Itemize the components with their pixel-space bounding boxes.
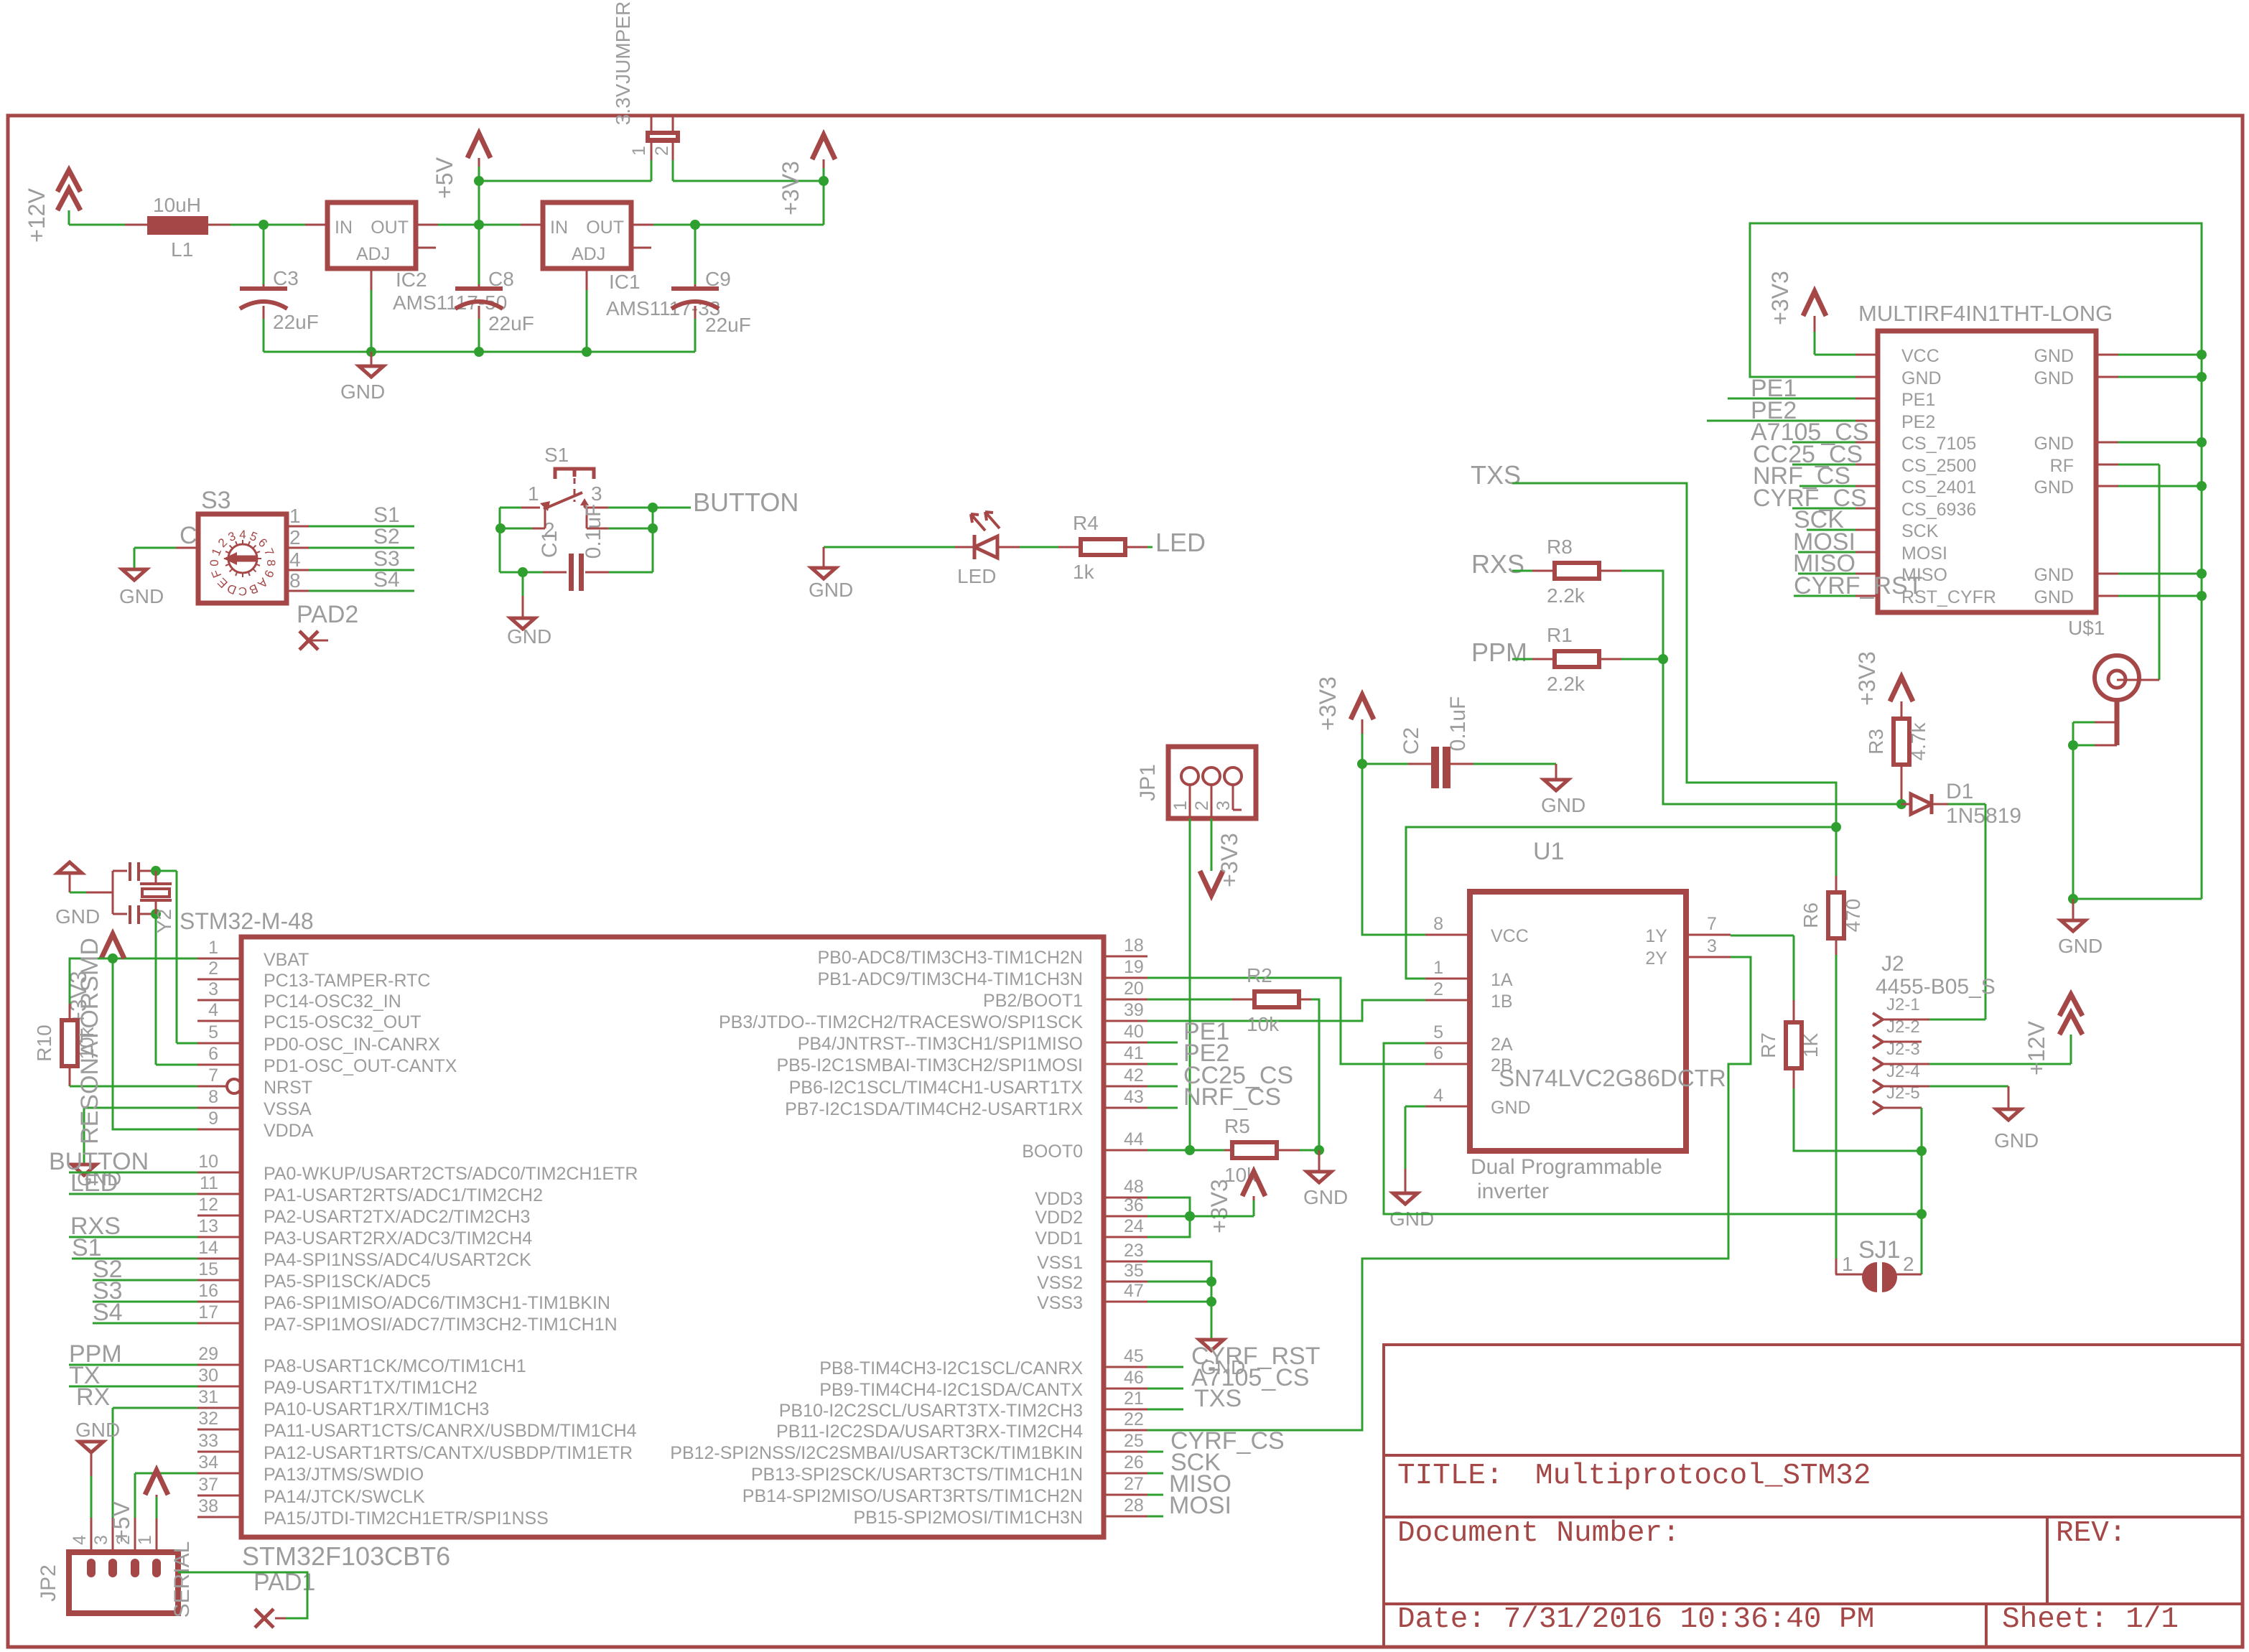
svg-text:29: 29 [198, 1344, 218, 1364]
svg-text:PB14-SPI2MISO/USART3RTS/TIM1CH: PB14-SPI2MISO/USART3RTS/TIM1CH2N [742, 1486, 1083, 1506]
svg-text:+5V: +5V [432, 157, 457, 198]
svg-text:RESONATORSMD: RESONATORSMD [76, 938, 103, 1144]
svg-text:CS_2500: CS_2500 [1901, 456, 1976, 476]
svg-text:IC2: IC2 [396, 269, 427, 291]
svg-text:GND: GND [2034, 434, 2074, 454]
svg-text:6: 6 [208, 1044, 218, 1064]
svg-text:PB10-I2C2SCL/USART3TX-TIM2CH3: PB10-I2C2SCL/USART3TX-TIM2CH3 [779, 1401, 1083, 1421]
svg-text:3: 3 [91, 1535, 111, 1545]
svg-text:10uH: 10uH [153, 194, 201, 216]
svg-text:C8: C8 [488, 268, 514, 290]
svg-text:CS_7105: CS_7105 [1901, 434, 1976, 454]
svg-text:MULTIRF4IN1THT-LONG: MULTIRF4IN1THT-LONG [1858, 301, 2113, 326]
svg-text:PB6-I2C1SCL/TIM4CH1-USART1TX: PB6-I2C1SCL/TIM4CH1-USART1TX [789, 1078, 1084, 1098]
svg-text:22: 22 [1124, 1409, 1144, 1429]
svg-text:R5: R5 [1224, 1115, 1250, 1137]
svg-text:4: 4 [1433, 1086, 1443, 1106]
svg-text:1Y: 1Y [1645, 926, 1667, 946]
svg-text:Date: 7/31/2016 10:36:40 PM: Date: 7/31/2016 10:36:40 PM [1397, 1603, 1874, 1636]
svg-text:R6: R6 [1799, 902, 1822, 928]
svg-text:4: 4 [208, 1000, 218, 1020]
svg-text:U1: U1 [1533, 838, 1564, 865]
svg-text:TXS: TXS [1194, 1385, 1242, 1412]
svg-text:SN74LVC2G86DCTR: SN74LVC2G86DCTR [1499, 1065, 1726, 1091]
svg-text:C2: C2 [1400, 727, 1423, 755]
svg-text:16: 16 [198, 1281, 218, 1301]
svg-text:PB8-TIM4CH3-I2C1SCL/CANRX: PB8-TIM4CH3-I2C1SCL/CANRX [819, 1358, 1083, 1378]
svg-text:4: 4 [70, 1535, 90, 1545]
svg-text:43: 43 [1124, 1087, 1144, 1107]
svg-text:+3V3: +3V3 [1206, 1179, 1232, 1233]
svg-text:GND: GND [2034, 368, 2074, 388]
svg-text:SERIAL: SERIAL [170, 1541, 194, 1618]
svg-text:C1: C1 [538, 531, 562, 558]
svg-text:5: 5 [1433, 1022, 1443, 1042]
svg-text:4: 4 [289, 549, 301, 571]
svg-text:2.2k: 2.2k [1547, 673, 1586, 695]
svg-text:2: 2 [113, 1535, 134, 1545]
svg-text:PA7-SPI1MOSI/ADC7/TIM3CH2-TIM1: PA7-SPI1MOSI/ADC7/TIM3CH2-TIM1CH1N [264, 1315, 618, 1335]
svg-text:GND: GND [1541, 794, 1586, 816]
svg-text:IN: IN [335, 218, 353, 238]
svg-text:40: 40 [1124, 1022, 1144, 1042]
svg-text:VDD2: VDD2 [1035, 1208, 1083, 1228]
svg-text:1A: 1A [1491, 970, 1513, 990]
svg-text:PC14-OSC32_IN: PC14-OSC32_IN [264, 991, 401, 1012]
svg-text:1: 1 [629, 146, 649, 156]
svg-text:STM32F103CBT6: STM32F103CBT6 [242, 1541, 450, 1571]
svg-text:ADJ: ADJ [572, 244, 605, 264]
svg-text:7: 7 [208, 1065, 218, 1086]
svg-text:CS_6936: CS_6936 [1901, 500, 1976, 520]
svg-text:GND: GND [75, 1419, 120, 1441]
svg-text:28: 28 [1124, 1495, 1144, 1516]
svg-text:22uF: 22uF [273, 311, 319, 333]
svg-text:7: 7 [1707, 914, 1717, 934]
svg-text:PA0-WKUP/USART2CTS/ADC0/TIM2CH: PA0-WKUP/USART2CTS/ADC0/TIM2CH1ETR [264, 1164, 638, 1184]
svg-text:S4: S4 [373, 568, 400, 592]
svg-text:R2: R2 [1247, 964, 1272, 986]
svg-text:3: 3 [1707, 936, 1717, 956]
svg-text:GND: GND [1901, 368, 1942, 388]
svg-text:3.3VJUMPER: 3.3VJUMPER [612, 1, 634, 126]
svg-text:0.1uF: 0.1uF [582, 504, 605, 559]
svg-text:PC15-OSC32_OUT: PC15-OSC32_OUT [264, 1012, 422, 1032]
svg-text:PE1: PE1 [1901, 390, 1935, 410]
svg-text:R8: R8 [1547, 536, 1573, 558]
svg-text:TXS: TXS [1471, 460, 1521, 490]
svg-text:PB13-SPI2SCK/USART3CTS/TIM1CH1: PB13-SPI2SCK/USART3CTS/TIM1CH1N [751, 1465, 1083, 1485]
svg-text:+12V: +12V [2024, 1021, 2049, 1075]
svg-text:2: 2 [1192, 801, 1212, 811]
svg-text:IN: IN [550, 218, 568, 238]
svg-text:4: 4 [239, 528, 246, 541]
svg-text:12: 12 [198, 1195, 218, 1215]
svg-text:4.7k: 4.7k [1907, 722, 1929, 761]
svg-text:J2: J2 [1881, 952, 1904, 976]
svg-text:19: 19 [1124, 957, 1144, 977]
svg-text:S4: S4 [93, 1299, 123, 1326]
svg-text:21: 21 [1124, 1389, 1144, 1409]
svg-text:2: 2 [208, 958, 218, 979]
svg-text:3: 3 [591, 482, 602, 505]
svg-text:VDDA: VDDA [264, 1121, 314, 1141]
svg-text:25: 25 [1124, 1431, 1144, 1451]
svg-text:NRF_CS: NRF_CS [1183, 1083, 1281, 1111]
svg-text:PB2/BOOT1: PB2/BOOT1 [983, 991, 1083, 1011]
svg-text:+12V: +12V [24, 188, 50, 243]
svg-text:2: 2 [1903, 1253, 1914, 1275]
svg-text:1N5819: 1N5819 [1946, 804, 2021, 828]
svg-text:1: 1 [1842, 1253, 1853, 1275]
svg-text:R7: R7 [1757, 1032, 1779, 1058]
svg-text:6: 6 [1433, 1043, 1443, 1063]
svg-text:+3V3: +3V3 [1315, 676, 1341, 731]
svg-text:1: 1 [528, 482, 539, 505]
svg-text:39: 39 [1124, 1000, 1144, 1020]
svg-text:23: 23 [1124, 1241, 1144, 1261]
svg-text:VBAT: VBAT [264, 950, 309, 970]
svg-text:1B: 1B [1491, 991, 1513, 1012]
svg-text:37: 37 [198, 1475, 218, 1495]
svg-text:+3V3: +3V3 [1854, 651, 1880, 706]
svg-text:S3: S3 [201, 487, 231, 514]
svg-text:33: 33 [198, 1431, 218, 1451]
svg-text:47: 47 [1124, 1281, 1144, 1301]
svg-text:10k: 10k [1247, 1013, 1280, 1035]
svg-text:PC13-TAMPER-RTC: PC13-TAMPER-RTC [264, 971, 430, 991]
svg-text:OUT: OUT [586, 218, 624, 238]
svg-text:8: 8 [208, 1087, 218, 1107]
svg-text:PA1-USART2RTS/ADC1/TIM2CH2: PA1-USART2RTS/ADC1/TIM2CH2 [264, 1185, 543, 1205]
svg-text:C3: C3 [273, 267, 299, 289]
svg-text:0: 0 [208, 559, 221, 566]
svg-text:PB7-I2C1SDA/TIM4CH2-USART1RX: PB7-I2C1SDA/TIM4CH2-USART1RX [785, 1099, 1083, 1119]
svg-text:PB9-TIM4CH4-I2C1SDA/CANTX: PB9-TIM4CH4-I2C1SDA/CANTX [819, 1380, 1083, 1400]
svg-text:1: 1 [289, 505, 301, 527]
svg-text:VDD3: VDD3 [1035, 1189, 1083, 1209]
svg-text:PD1-OSC_OUT-CANTX: PD1-OSC_OUT-CANTX [264, 1056, 457, 1076]
svg-text:RXS: RXS [1471, 549, 1524, 579]
svg-text:RX: RX [76, 1383, 110, 1411]
svg-text:S1: S1 [373, 503, 400, 527]
svg-text:PD0-OSC_IN-CANRX: PD0-OSC_IN-CANRX [264, 1035, 440, 1055]
svg-text:GND: GND [1303, 1186, 1348, 1208]
svg-text:MOSI: MOSI [1901, 543, 1947, 564]
svg-text:RF: RF [2050, 456, 2074, 476]
svg-text:D1: D1 [1946, 780, 1973, 803]
svg-text:PA5-SPI1SCK/ADC5: PA5-SPI1SCK/ADC5 [264, 1271, 431, 1292]
svg-text:18: 18 [1124, 935, 1144, 956]
svg-text:8: 8 [1433, 914, 1443, 934]
svg-text:SCK: SCK [1901, 521, 1939, 541]
svg-text:+3V3: +3V3 [1767, 271, 1793, 325]
svg-text:BOOT0: BOOT0 [1022, 1142, 1083, 1162]
svg-text:REV:: REV: [2056, 1517, 2126, 1550]
svg-text:2B: 2B [1491, 1055, 1513, 1075]
svg-text:2.2k: 2.2k [1547, 584, 1586, 607]
svg-text:13: 13 [198, 1216, 218, 1236]
svg-text:36: 36 [1124, 1195, 1144, 1215]
svg-text:GND: GND [119, 585, 164, 607]
svg-text:PA14/JTCK/SWCLK: PA14/JTCK/SWCLK [264, 1487, 425, 1507]
svg-text:VCC: VCC [1901, 346, 1940, 366]
svg-text:PA4-SPI1NSS/ADC4/USART2CK: PA4-SPI1NSS/ADC4/USART2CK [264, 1250, 531, 1270]
svg-text:PA13/JTMS/SWDIO: PA13/JTMS/SWDIO [264, 1465, 424, 1485]
svg-text:GND: GND [1994, 1129, 2039, 1152]
svg-text:CS_2401: CS_2401 [1901, 477, 1976, 498]
svg-text:11: 11 [200, 1173, 218, 1193]
svg-text:R3: R3 [1865, 729, 1887, 755]
svg-text:PA11-USART1CTS/CANRX/USBDM/TIM: PA11-USART1CTS/CANRX/USBDM/TIM1CH4 [264, 1421, 637, 1441]
svg-text:5: 5 [208, 1022, 218, 1042]
svg-text:PA6-SPI1MISO/ADC6/TIM3CH1-TIM1: PA6-SPI1MISO/ADC6/TIM3CH1-TIM1BKIN [264, 1293, 610, 1313]
svg-text:C: C [238, 584, 247, 598]
svg-text:PA8-USART1CK/MCO/TIM1CH1: PA8-USART1CK/MCO/TIM1CH1 [264, 1356, 526, 1376]
svg-text:2Y: 2Y [1645, 948, 1667, 969]
svg-text:45: 45 [1124, 1346, 1144, 1366]
svg-text:35: 35 [1124, 1261, 1144, 1281]
svg-text:22uF: 22uF [488, 312, 534, 335]
svg-text:PB1-ADC9/TIM3CH4-TIM1CH3N: PB1-ADC9/TIM3CH4-TIM1CH3N [817, 969, 1083, 989]
svg-text:S2: S2 [373, 525, 400, 549]
svg-text:OUT: OUT [371, 218, 409, 238]
svg-text:3: 3 [1214, 801, 1234, 811]
svg-text:Sheet: 1/1: Sheet: 1/1 [2002, 1603, 2179, 1636]
svg-text:GND: GND [340, 381, 385, 403]
svg-text:22uF: 22uF [705, 314, 751, 336]
svg-text:PB0-ADC8/TIM3CH3-TIM1CH2N: PB0-ADC8/TIM3CH3-TIM1CH2N [817, 948, 1083, 968]
svg-text:Dual Programmable: Dual Programmable [1471, 1155, 1662, 1179]
svg-text:0.1uF: 0.1uF [1446, 696, 1470, 752]
svg-text:GND: GND [507, 625, 551, 648]
svg-text:PA10-USART1RX/TIM1CH3: PA10-USART1RX/TIM1CH3 [264, 1399, 489, 1419]
svg-text:27: 27 [1124, 1474, 1144, 1494]
svg-text:U$1: U$1 [2068, 617, 2105, 639]
svg-text:8: 8 [264, 559, 278, 566]
svg-text:30: 30 [198, 1366, 218, 1386]
svg-text:LED: LED [70, 1170, 118, 1197]
svg-text:CYRF_RST: CYRF_RST [1794, 572, 1922, 599]
svg-text:ADJ: ADJ [356, 244, 390, 264]
svg-text:PB3/JTDO--TIM2CH2/TRACESWO/SPI: PB3/JTDO--TIM2CH2/TRACESWO/SPI1SCK [719, 1012, 1083, 1032]
svg-text:PB12-SPI2NSS/I2C2SMBAI/USART3C: PB12-SPI2NSS/I2C2SMBAI/USART3CK/TIM1BKIN [670, 1443, 1083, 1463]
svg-text:GND: GND [2034, 477, 2074, 498]
svg-text:41: 41 [1124, 1043, 1144, 1063]
svg-text:2A: 2A [1491, 1035, 1513, 1055]
svg-text:2: 2 [652, 146, 672, 156]
svg-text:NRST: NRST [264, 1078, 312, 1098]
svg-text:GND: GND [809, 579, 853, 601]
svg-text:32: 32 [198, 1409, 218, 1429]
svg-text:SJ1: SJ1 [1858, 1236, 1901, 1264]
svg-text:GND: GND [2034, 346, 2074, 366]
svg-text:8: 8 [289, 569, 301, 592]
svg-text:14: 14 [198, 1238, 218, 1258]
svg-text:PB11-I2C2SDA/USART3RX-TIM2CH4: PB11-I2C2SDA/USART3RX-TIM2CH4 [776, 1422, 1083, 1442]
svg-text:L1: L1 [171, 238, 193, 261]
svg-text:VSSA: VSSA [264, 1099, 312, 1119]
svg-text:PA3-USART2RX/ADC3/TIM2CH4: PA3-USART2RX/ADC3/TIM2CH4 [264, 1228, 532, 1249]
svg-text:1: 1 [208, 938, 218, 958]
svg-text:PE2: PE2 [1901, 412, 1935, 432]
svg-text:1: 1 [135, 1535, 155, 1545]
svg-text:S1: S1 [544, 444, 569, 466]
svg-text:MOSI: MOSI [1169, 1492, 1231, 1519]
svg-text:PPM: PPM [1471, 638, 1527, 667]
svg-text:VSS1: VSS1 [1037, 1253, 1083, 1273]
svg-text:GND: GND [2058, 935, 2103, 957]
svg-text:TITLE:: TITLE: [1397, 1460, 1504, 1493]
svg-text:LED: LED [957, 565, 996, 587]
svg-text:PA12-USART1RTS/CANTX/USBDP/TIM: PA12-USART1RTS/CANTX/USBDP/TIM1ETR [264, 1443, 633, 1463]
svg-text:42: 42 [1124, 1065, 1144, 1086]
svg-text:IC1: IC1 [609, 271, 641, 293]
svg-text:2: 2 [289, 526, 301, 549]
svg-text:VCC: VCC [1491, 926, 1529, 946]
svg-text:1k: 1k [1073, 561, 1095, 583]
svg-text:R4: R4 [1073, 512, 1099, 534]
svg-text:GND: GND [2034, 587, 2074, 607]
svg-text:BUTTON: BUTTON [693, 487, 798, 517]
svg-text:GND: GND [2034, 565, 2074, 585]
svg-text:48: 48 [1124, 1177, 1144, 1197]
svg-text:JP1: JP1 [1136, 764, 1160, 801]
svg-text:J2-1: J2-1 [1886, 995, 1920, 1014]
svg-text:+3V3: +3V3 [1216, 833, 1242, 887]
svg-text:26: 26 [1124, 1452, 1144, 1473]
svg-text:3: 3 [208, 979, 218, 999]
svg-text:PA15/JTDI-TIM2CH1ETR/SPI1NSS: PA15/JTDI-TIM2CH1ETR/SPI1NSS [264, 1508, 549, 1529]
svg-text:VSS3: VSS3 [1037, 1293, 1083, 1313]
svg-text:STM32-M-48: STM32-M-48 [180, 908, 314, 934]
svg-text:31: 31 [198, 1387, 218, 1407]
svg-text:PB5-I2C1SMBAI-TIM3CH2/SPI1MOSI: PB5-I2C1SMBAI-TIM3CH2/SPI1MOSI [776, 1055, 1083, 1075]
svg-text:1: 1 [1433, 958, 1443, 978]
svg-text:34: 34 [198, 1452, 218, 1473]
svg-text:Multiprotocol_STM32: Multiprotocol_STM32 [1535, 1460, 1871, 1493]
svg-text:VDD1: VDD1 [1035, 1228, 1083, 1249]
svg-text:GND: GND [1491, 1098, 1531, 1118]
svg-text:9: 9 [208, 1109, 218, 1129]
svg-text:VSS2: VSS2 [1037, 1273, 1083, 1293]
svg-text:inverter: inverter [1477, 1180, 1549, 1203]
svg-text:C9: C9 [705, 268, 731, 290]
svg-text:2: 2 [1433, 979, 1443, 999]
svg-text:10: 10 [198, 1152, 218, 1172]
svg-text:PB15-SPI2MOSI/TIM1CH3N: PB15-SPI2MOSI/TIM1CH3N [853, 1508, 1083, 1528]
svg-text:PA2-USART2TX/ADC2/TIM2CH3: PA2-USART2TX/ADC2/TIM2CH3 [264, 1207, 530, 1227]
svg-text:38: 38 [198, 1496, 218, 1516]
svg-text:R1: R1 [1547, 624, 1573, 646]
svg-text:PB4/JNTRST--TIM3CH1/SPI1MISO: PB4/JNTRST--TIM3CH1/SPI1MISO [798, 1034, 1083, 1054]
svg-text:46: 46 [1124, 1368, 1144, 1388]
svg-text:470: 470 [1842, 899, 1864, 933]
svg-text:PA9-USART1TX/TIM1CH2: PA9-USART1TX/TIM1CH2 [264, 1378, 478, 1398]
svg-text:1K: 1K [1799, 1033, 1822, 1058]
svg-text:Document Number:: Document Number: [1397, 1517, 1680, 1550]
svg-text:24: 24 [1124, 1216, 1144, 1236]
svg-text:1: 1 [1170, 801, 1191, 811]
svg-text:+3V3: +3V3 [778, 161, 804, 215]
svg-text:LED: LED [1155, 528, 1206, 557]
svg-text:C: C [180, 522, 197, 549]
svg-text:44: 44 [1124, 1129, 1144, 1149]
svg-text:GND: GND [1389, 1208, 1434, 1230]
svg-text:PAD2: PAD2 [297, 601, 358, 628]
svg-text:JP2: JP2 [37, 1564, 60, 1602]
svg-text:R10: R10 [33, 1025, 55, 1061]
svg-text:20: 20 [1124, 979, 1144, 999]
svg-text:GND: GND [55, 905, 100, 928]
svg-text:17: 17 [198, 1302, 218, 1322]
svg-text:15: 15 [198, 1259, 218, 1279]
